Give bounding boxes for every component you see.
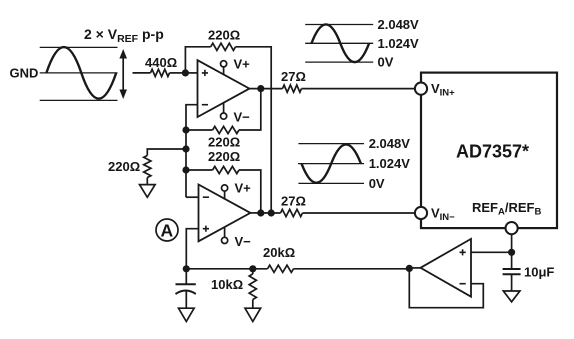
wire U2 output to 27ohm xyxy=(250,212,280,214)
op-amp U1 xyxy=(198,60,250,117)
svg-text:REFA/REFB: REFA/REFB xyxy=(472,200,542,217)
wire top 220 to right vertical down to U2 output xyxy=(236,47,272,213)
svg-text:1.024V: 1.024V xyxy=(369,156,411,171)
node input junction xyxy=(182,69,189,76)
source sine waveform xyxy=(40,47,118,100)
p-p amplitude arrow xyxy=(119,49,127,99)
svg-text:V−: V− xyxy=(235,234,252,249)
svg-text:440Ω: 440Ω xyxy=(145,55,177,70)
svg-text:V+: V+ xyxy=(234,56,251,71)
wire ref node to U3 plus input xyxy=(471,251,512,253)
ground (10kohm) xyxy=(245,308,261,321)
svg-text:V−: V− xyxy=(234,110,251,125)
resistor 220ohm U1 feedback xyxy=(213,126,239,133)
resistor 10kohm xyxy=(211,269,256,308)
annotation sine VIN+ xyxy=(305,17,419,70)
AD7357 box xyxy=(421,73,557,229)
wire 220 to ground xyxy=(146,178,148,185)
ground (220ohm) xyxy=(140,185,156,198)
wire U1 minus input feedback chain xyxy=(186,105,198,198)
resistor 27ohm bottom xyxy=(281,209,303,216)
U1 V- pin xyxy=(221,103,251,125)
ground (capacitor A) xyxy=(179,308,195,321)
node U3 output xyxy=(406,265,413,272)
wire source to 440 xyxy=(133,72,151,74)
svg-text:0V: 0V xyxy=(378,55,394,70)
wire chain to fb1 xyxy=(186,129,213,131)
wire 27ohm to VIN+ xyxy=(302,88,416,90)
wire U1 output to 27ohm xyxy=(249,88,282,90)
wire fb1 up to U1 output xyxy=(239,89,261,130)
svg-text:220Ω: 220Ω xyxy=(208,135,240,150)
svg-text:27Ω: 27Ω xyxy=(281,194,306,209)
bottom node row wire xyxy=(186,267,409,269)
resistor 220ohm to ground xyxy=(144,156,151,178)
wire U2 plus input down to bottom node xyxy=(186,229,198,269)
capacitor node A xyxy=(176,269,196,308)
ground (10uF) xyxy=(503,291,520,302)
wire chain to U2 minus input xyxy=(186,196,199,198)
svg-text:AD7357*: AD7357* xyxy=(456,142,529,162)
node U2 output b xyxy=(268,209,275,216)
pin VIN- xyxy=(415,206,455,223)
svg-text:VIN−: VIN− xyxy=(431,206,455,223)
wire chain to grounded 220 xyxy=(147,149,186,156)
svg-text:2.048V: 2.048V xyxy=(369,136,411,151)
node 10k/20k junction xyxy=(249,265,256,272)
wire REF pin down to ref node xyxy=(511,234,513,269)
svg-text:1.024V: 1.024V xyxy=(378,36,420,51)
node bottom A junction xyxy=(183,265,190,272)
U2 V- pin xyxy=(222,227,252,249)
node chain dot 1 xyxy=(182,126,189,133)
node A circle label xyxy=(156,219,178,241)
wire 440 to input node xyxy=(170,72,186,74)
svg-text:27Ω: 27Ω xyxy=(281,69,306,84)
pin VIN+ xyxy=(415,81,455,98)
node chain dot 2 xyxy=(182,145,189,152)
U2 V+ pin xyxy=(222,181,252,199)
resistor R 440ohm xyxy=(151,69,170,76)
svg-text:GND: GND xyxy=(10,66,39,81)
wire fb2 down to U2 output xyxy=(239,170,261,213)
annotation sine VIN- xyxy=(298,136,410,191)
svg-text:2.048V: 2.048V xyxy=(378,17,420,32)
svg-text:20kΩ: 20kΩ xyxy=(263,245,295,260)
pin REFA/REFB xyxy=(472,200,542,234)
wire 27ohm to VIN- xyxy=(303,212,416,214)
node REF junction xyxy=(508,249,515,256)
resistor 220ohm U2 feedback xyxy=(213,166,239,173)
svg-text:V+: V+ xyxy=(235,181,252,196)
svg-text:VIN+: VIN+ xyxy=(431,81,455,98)
svg-text:2 × VREF p-p: 2 × VREF p-p xyxy=(84,26,164,45)
resistor 220ohm top cross-coupling xyxy=(211,43,236,50)
node U2 output a xyxy=(257,209,264,216)
wire U3 minus feedback loop xyxy=(409,269,483,308)
resistor 27ohm top xyxy=(283,85,302,92)
wire chain to fb2 xyxy=(186,169,213,171)
svg-text:0V: 0V xyxy=(369,176,385,191)
wire input node up to top feedback xyxy=(185,47,210,73)
svg-text:220Ω: 220Ω xyxy=(208,28,240,43)
svg-text:10μF: 10μF xyxy=(524,265,554,280)
node U1 output xyxy=(257,85,264,92)
wire U3 output xyxy=(409,267,420,269)
wire input node to U1 plus input xyxy=(185,72,197,74)
svg-text:10kΩ: 10kΩ xyxy=(211,277,243,292)
op-amp U3 buffer xyxy=(421,239,472,297)
U1 V+ pin xyxy=(221,56,251,74)
node chain dot 3 xyxy=(182,166,189,173)
capacitor 10uF xyxy=(503,265,555,292)
svg-text:220Ω: 220Ω xyxy=(108,159,140,174)
op-amp U2 xyxy=(199,185,251,242)
svg-text:220Ω: 220Ω xyxy=(208,149,240,164)
svg-text:A: A xyxy=(161,220,174,240)
resistor 20kohm xyxy=(268,265,294,272)
